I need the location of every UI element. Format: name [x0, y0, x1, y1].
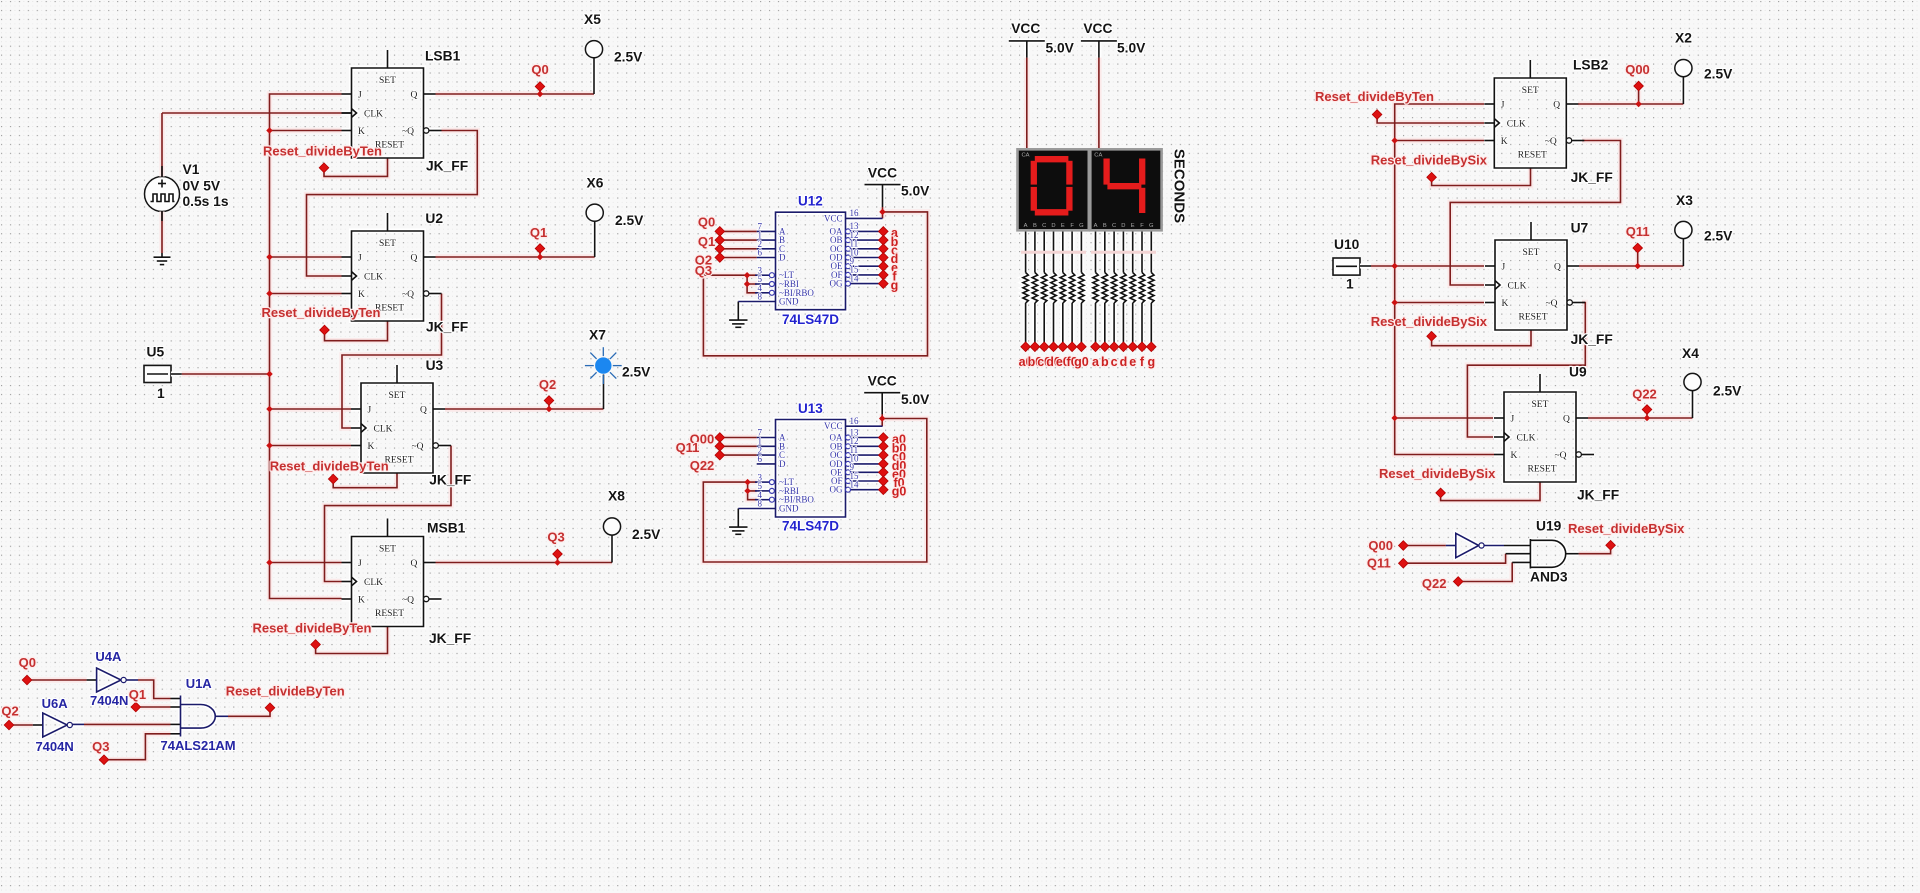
svg-text:K: K — [358, 595, 365, 605]
svg-text:VCC: VCC — [824, 213, 843, 223]
svg-text:Reset_divideByTen: Reset_divideByTen — [263, 144, 382, 159]
svg-text:JK_FF: JK_FF — [426, 320, 468, 335]
svg-text:Q: Q — [1554, 262, 1561, 272]
svg-text:A: A — [1094, 223, 1098, 229]
svg-text:g: g — [891, 278, 899, 292]
svg-text:LSB2: LSB2 — [1573, 58, 1609, 73]
svg-text:J: J — [368, 405, 372, 415]
svg-text:J: J — [1501, 100, 1505, 110]
svg-text:74ALS21AM: 74ALS21AM — [161, 738, 236, 753]
svg-text:2.5V: 2.5V — [622, 365, 651, 380]
svg-text:Q11: Q11 — [1367, 556, 1391, 571]
svg-text:0.5s 1s: 0.5s 1s — [183, 194, 229, 209]
svg-text:16: 16 — [850, 416, 860, 426]
svg-text:~Q: ~Q — [1545, 137, 1557, 147]
svg-text:CLK: CLK — [1517, 433, 1536, 443]
svg-text:74LS47D: 74LS47D — [782, 519, 839, 534]
svg-text:7404N: 7404N — [35, 739, 73, 754]
svg-text:Reset_divideByTen: Reset_divideByTen — [262, 305, 381, 320]
svg-text:Q2: Q2 — [539, 377, 556, 392]
svg-text:c: c — [1111, 355, 1118, 369]
svg-text:LSB1: LSB1 — [425, 49, 461, 64]
svg-text:X2: X2 — [1675, 31, 1692, 46]
svg-text:Q11: Q11 — [1626, 224, 1650, 239]
svg-text:CA: CA — [1022, 153, 1030, 159]
svg-text:K: K — [358, 290, 365, 300]
svg-text:X5: X5 — [584, 12, 601, 27]
svg-text:JK_FF: JK_FF — [1577, 488, 1619, 503]
svg-text:5.0V: 5.0V — [1117, 41, 1146, 56]
svg-text:F: F — [1070, 223, 1074, 229]
svg-text:2.5V: 2.5V — [1704, 67, 1733, 82]
svg-text:Reset_divideBySix: Reset_divideBySix — [1371, 314, 1488, 329]
svg-text:D: D — [1121, 223, 1125, 229]
svg-text:7404N: 7404N — [90, 693, 128, 708]
svg-text:2.5V: 2.5V — [1713, 384, 1742, 399]
svg-text:J: J — [358, 253, 362, 263]
svg-text:Q2: Q2 — [1, 704, 18, 719]
svg-text:RESET: RESET — [1528, 465, 1557, 475]
svg-text:Q0: Q0 — [531, 62, 548, 77]
svg-text:D: D — [779, 459, 786, 469]
svg-text:RESET: RESET — [1519, 313, 1548, 323]
svg-text:J: J — [1511, 414, 1515, 424]
svg-text:0V 5V: 0V 5V — [183, 179, 221, 194]
svg-text:2.5V: 2.5V — [632, 527, 661, 542]
svg-text:5.0V: 5.0V — [901, 184, 930, 199]
svg-text:G: G — [1149, 223, 1154, 229]
svg-text:~Q: ~Q — [402, 127, 414, 137]
svg-text:SET: SET — [379, 239, 396, 249]
svg-text:U7: U7 — [1571, 221, 1589, 236]
svg-text:Q1: Q1 — [129, 687, 146, 702]
svg-text:6: 6 — [758, 248, 763, 258]
svg-text:VCC: VCC — [1083, 21, 1112, 36]
svg-text:X6: X6 — [587, 176, 604, 191]
svg-text:Q22: Q22 — [1632, 386, 1657, 401]
svg-text:Reset_divideByTen: Reset_divideByTen — [253, 621, 372, 636]
svg-text:RESET: RESET — [1518, 151, 1547, 161]
svg-text:CLK: CLK — [1507, 119, 1526, 129]
svg-text:X3: X3 — [1676, 193, 1693, 208]
svg-text:CA: CA — [1094, 153, 1102, 159]
svg-text:CLK: CLK — [364, 272, 383, 282]
svg-text:X8: X8 — [608, 489, 625, 504]
svg-text:SET: SET — [1522, 86, 1539, 96]
svg-text:C: C — [1112, 223, 1116, 229]
svg-text:2.5V: 2.5V — [615, 213, 644, 228]
svg-text:CLK: CLK — [374, 424, 393, 434]
svg-text:U9: U9 — [1569, 365, 1587, 380]
svg-text:2.5V: 2.5V — [614, 50, 643, 65]
svg-text:U1A: U1A — [186, 676, 213, 691]
svg-text:GND: GND — [779, 297, 799, 307]
svg-text:8: 8 — [758, 499, 763, 509]
svg-text:Q: Q — [411, 253, 418, 263]
svg-text:K: K — [1502, 299, 1509, 309]
svg-text:g0: g0 — [1074, 355, 1089, 369]
svg-text:~Q: ~Q — [1555, 451, 1567, 461]
svg-text:JK_FF: JK_FF — [426, 159, 468, 174]
svg-text:g: g — [1147, 355, 1155, 369]
svg-text:VCC: VCC — [1011, 21, 1040, 36]
svg-text:F: F — [1140, 223, 1144, 229]
svg-text:VCC: VCC — [824, 421, 843, 431]
svg-text:5.0V: 5.0V — [901, 392, 930, 407]
svg-text:SET: SET — [1532, 400, 1549, 410]
svg-text:Q: Q — [411, 559, 418, 569]
svg-text:B: B — [1033, 223, 1037, 229]
svg-text:1: 1 — [1346, 277, 1354, 292]
svg-text:A: A — [1024, 223, 1028, 229]
svg-text:SET: SET — [379, 545, 396, 555]
svg-text:1: 1 — [157, 386, 165, 401]
svg-text:B: B — [1103, 223, 1107, 229]
svg-text:RESET: RESET — [385, 456, 414, 466]
svg-text:Q: Q — [411, 90, 418, 100]
svg-text:Q11: Q11 — [676, 440, 700, 455]
svg-text:Reset_divideBySix: Reset_divideBySix — [1371, 153, 1488, 168]
svg-text:AND3: AND3 — [1530, 570, 1568, 585]
svg-text:G: G — [1079, 223, 1084, 229]
svg-text:Q22: Q22 — [1422, 576, 1447, 591]
svg-text:U19: U19 — [1536, 519, 1562, 534]
svg-text:Q: Q — [1563, 414, 1570, 424]
svg-text:V1: V1 — [183, 162, 200, 177]
svg-text:J: J — [358, 559, 362, 569]
svg-text:U4A: U4A — [95, 649, 122, 664]
svg-text:K: K — [1501, 137, 1508, 147]
svg-text:E: E — [1061, 223, 1065, 229]
svg-text:Reset_divideByTen: Reset_divideByTen — [226, 684, 345, 699]
svg-text:Reset_divideBySix: Reset_divideBySix — [1568, 521, 1685, 536]
svg-text:74LS47D: 74LS47D — [782, 312, 839, 327]
svg-text:Q0: Q0 — [698, 214, 715, 229]
svg-text:K: K — [368, 442, 375, 452]
svg-text:Reset_divideByTen: Reset_divideByTen — [270, 459, 389, 474]
svg-text:CLK: CLK — [364, 578, 383, 588]
svg-text:U5: U5 — [147, 345, 165, 360]
svg-text:Q: Q — [1553, 100, 1560, 110]
svg-text:SET: SET — [379, 76, 396, 86]
svg-text:U6A: U6A — [42, 696, 69, 711]
svg-text:SET: SET — [389, 391, 406, 401]
svg-text:Q: Q — [420, 405, 427, 415]
svg-text:2.5V: 2.5V — [1704, 229, 1733, 244]
svg-text:Q3: Q3 — [547, 530, 564, 545]
svg-text:JK_FF: JK_FF — [429, 631, 471, 646]
svg-text:d: d — [1120, 355, 1128, 369]
svg-text:C: C — [1042, 223, 1046, 229]
svg-text:a: a — [1092, 355, 1100, 369]
svg-text:Q00: Q00 — [1368, 538, 1393, 553]
svg-text:D: D — [779, 253, 786, 263]
svg-text:8: 8 — [758, 292, 763, 302]
svg-text:SECONDS: SECONDS — [1171, 149, 1188, 223]
svg-text:6: 6 — [758, 454, 763, 464]
svg-text:K: K — [358, 127, 365, 137]
svg-text:X7: X7 — [589, 328, 606, 343]
svg-text:~Q: ~Q — [402, 290, 414, 300]
svg-text:Q0: Q0 — [19, 655, 36, 670]
svg-text:VCC: VCC — [868, 166, 897, 181]
svg-text:E: E — [1131, 223, 1135, 229]
svg-text:VCC: VCC — [868, 374, 897, 389]
svg-text:X4: X4 — [1682, 346, 1699, 361]
svg-text:Q00: Q00 — [1625, 62, 1650, 77]
svg-text:JK_FF: JK_FF — [1571, 332, 1613, 347]
svg-text:U13: U13 — [798, 401, 823, 416]
svg-text:Reset_divideBySix: Reset_divideBySix — [1379, 466, 1496, 481]
svg-text:OG: OG — [830, 279, 843, 289]
svg-text:~Q: ~Q — [1546, 299, 1558, 309]
svg-text:U2: U2 — [425, 211, 443, 226]
svg-text:Q1: Q1 — [698, 234, 715, 249]
svg-text:J: J — [1502, 262, 1506, 272]
svg-text:K: K — [1511, 451, 1518, 461]
svg-text:Reset_divideByTen: Reset_divideByTen — [1315, 89, 1434, 104]
svg-text:14: 14 — [850, 480, 860, 490]
svg-text:16: 16 — [850, 208, 860, 218]
svg-text:OG: OG — [830, 485, 843, 495]
svg-text:U12: U12 — [798, 194, 823, 209]
svg-text:GND: GND — [779, 504, 799, 514]
svg-text:SET: SET — [1523, 248, 1540, 258]
svg-text:Q22: Q22 — [690, 458, 715, 473]
svg-text:U10: U10 — [1334, 237, 1360, 252]
svg-text:CLK: CLK — [1508, 281, 1527, 291]
svg-text:g0: g0 — [892, 485, 907, 499]
svg-text:CLK: CLK — [364, 109, 383, 119]
svg-text:D: D — [1051, 223, 1055, 229]
svg-text:J: J — [358, 90, 362, 100]
svg-text:JK_FF: JK_FF — [1571, 170, 1613, 185]
svg-text:RESET: RESET — [375, 609, 404, 619]
svg-text:b: b — [1101, 355, 1109, 369]
svg-text:JK_FF: JK_FF — [429, 473, 471, 488]
svg-text:~Q: ~Q — [402, 595, 414, 605]
svg-text:Q3: Q3 — [92, 739, 109, 754]
svg-text:14: 14 — [850, 273, 860, 283]
svg-text:~Q: ~Q — [412, 442, 424, 452]
svg-text:e: e — [1129, 355, 1136, 369]
svg-text:MSB1: MSB1 — [427, 521, 466, 536]
svg-text:Q1: Q1 — [530, 225, 547, 240]
svg-text:Q3: Q3 — [695, 263, 712, 278]
svg-text:5.0V: 5.0V — [1046, 41, 1075, 56]
svg-text:U3: U3 — [426, 358, 444, 373]
